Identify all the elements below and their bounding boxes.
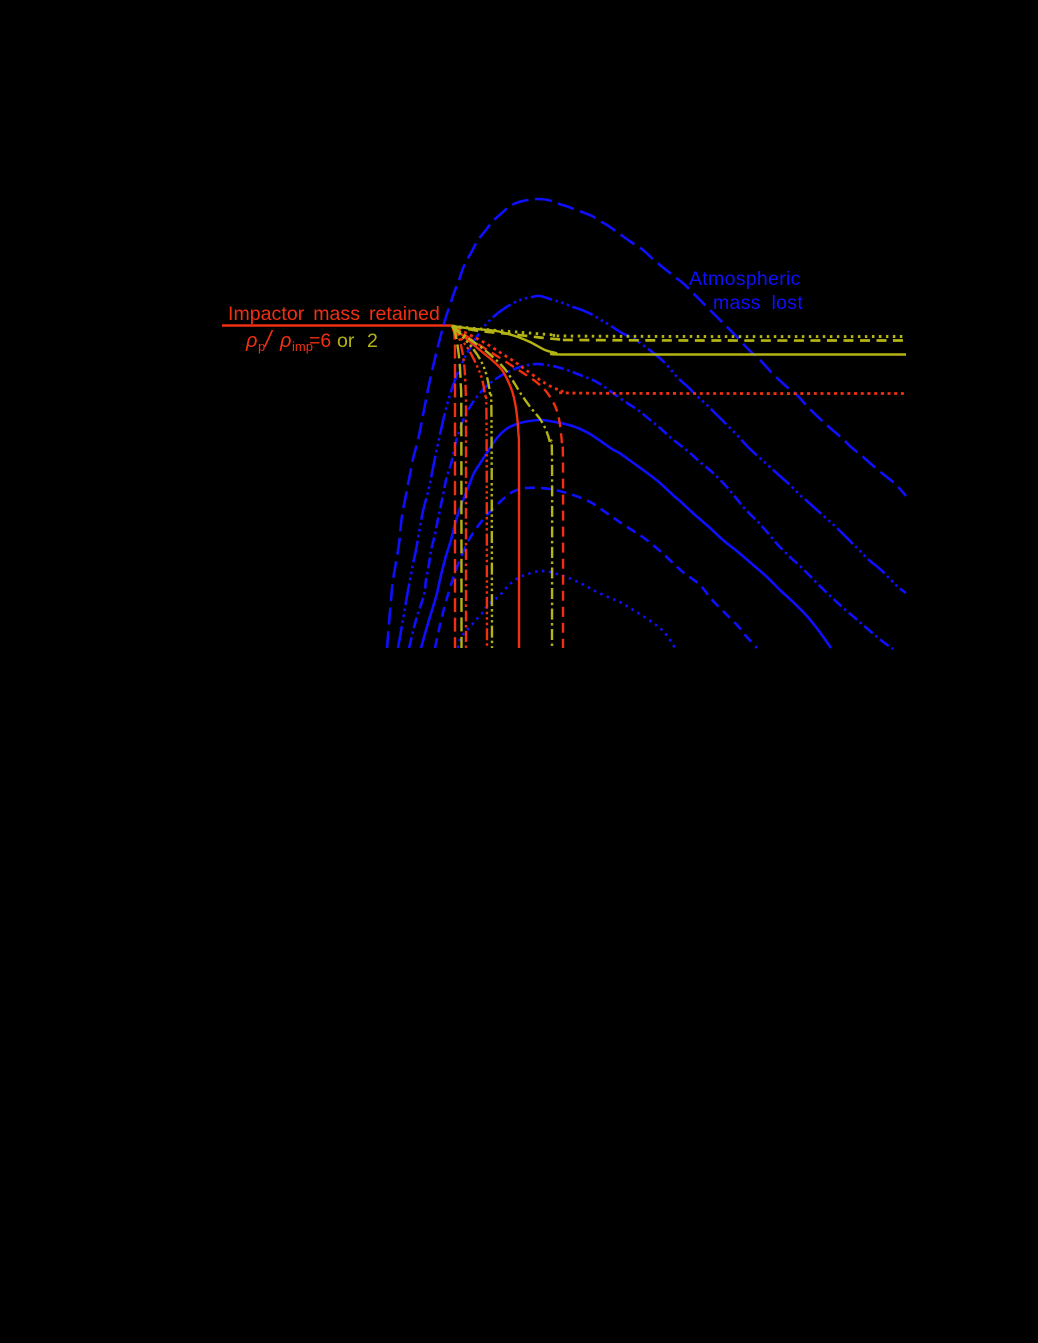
blue dash-dot curve B3 [409,364,893,649]
blue dash-dot-dot-dot curve B2 [398,296,906,648]
red dash-dot plunging curve [452,326,466,648]
olive solid curve flattening [452,326,906,355]
svg-text:Atmospheric: Atmospheric [689,268,801,290]
blue dashed curve B5 [435,488,757,648]
red dotted curve flattening [452,326,906,394]
svg-text:ρp/ρimp=6: ρp/ρimp=6 [245,326,331,354]
olive dash-dot-dot-dot plunging curve [452,326,492,648]
red dash-dot-dot-dot plunging curve [452,326,487,648]
red long-dash plunging curve [452,326,455,648]
red solid plunging curve [452,326,519,648]
svg-text:Impactor mass retained: Impactor mass retained [228,303,440,325]
blue long-dash curve B1 (atmospheric mass lost, largest) [387,199,906,648]
olive dotted curve flattening [452,326,906,337]
red horizontal line: impactor mass retained level [222,324,452,327]
blue dotted curve B6 [458,571,675,648]
svg-text:or2: or2 [337,330,378,352]
red dashed plunging curve [452,326,563,648]
olive dashed curve flattening [452,326,906,341]
olive long-dash plunging curve [452,326,462,648]
svg-text:mass lost: mass lost [713,292,803,314]
olive dash-dot plunging curve [452,326,552,648]
blue solid curve B4 [421,420,831,648]
